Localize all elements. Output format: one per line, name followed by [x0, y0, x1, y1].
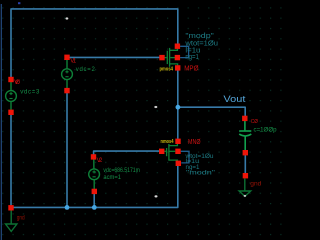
svg-text:gnd: gnd — [17, 214, 25, 221]
pin squares V0 — [8, 77, 13, 82]
white marker gnd apex — [244, 195, 247, 197]
wire V1 bottom to rail — [66, 93, 68, 208]
svg-text:pmos4: pmos4 — [160, 66, 174, 72]
capacitor C0 symbol — [239, 121, 251, 150]
pin squares V2 — [91, 154, 96, 159]
svg-text:nmos4: nmos4 — [161, 139, 174, 145]
svg-text:wtot=1Øu: wtot=1Øu — [184, 40, 218, 47]
wire ground rail and up to MN0 source — [11, 166, 178, 208]
wire V2 top to MN0 gate — [94, 151, 161, 155]
svg-text:MPØ: MPØ — [184, 65, 199, 72]
pin squares V1 — [64, 55, 69, 60]
svg-text:vdc=3: vdc=3 — [20, 89, 40, 95]
svg-text:vdc=2: vdc=2 — [76, 67, 96, 73]
wire Vout to C0 — [178, 107, 245, 116]
pin squares MN0 — [175, 139, 180, 144]
wire MP0 bulk tie — [180, 46, 189, 57]
svg-text:CØ: CØ — [251, 119, 259, 125]
wire C0 bottom to gnd — [244, 155, 246, 173]
svg-text:"modn": "modn" — [186, 171, 215, 177]
svg-text:MNØ: MNØ — [188, 139, 201, 146]
svg-text:vdc=686.5171m: vdc=686.5171m — [103, 168, 139, 174]
svg-text:gnd: gnd — [250, 181, 262, 188]
svg-text:VØ: VØ — [14, 80, 20, 86]
wire V2 bottom to rail — [93, 194, 95, 208]
border speck — [18, 2, 20, 4]
ground left — [6, 210, 17, 231]
vsource V2 — [89, 160, 100, 189]
svg-text:c=1ØØp: c=1ØØp — [254, 128, 278, 134]
wire junction down to MN0 drain — [177, 107, 179, 139]
pin square gnd right — [243, 173, 248, 178]
wire V1 top to MP0 gate — [67, 56, 161, 58]
nmos MN0 symbol — [164, 144, 177, 161]
pmos MP0 symbol — [164, 48, 177, 67]
white marker mid — [154, 106, 157, 108]
wire vdd loop: V0 top to MP0 source — [11, 9, 178, 78]
sheet border left edge — [0, 4, 2, 240]
pin squares C0 — [242, 116, 247, 121]
pin squares MP0 — [175, 44, 180, 49]
pin square gnd left — [8, 205, 13, 210]
svg-text:acm=1: acm=1 — [103, 175, 121, 181]
svg-text:V2: V2 — [97, 158, 103, 164]
svg-text:ng=1: ng=1 — [185, 54, 199, 61]
svg-text:Vout: Vout — [223, 94, 245, 105]
wire MP0 drain to node Vout junction — [177, 70, 179, 107]
junction dot rail V1 — [65, 205, 70, 210]
ground right — [239, 179, 251, 197]
white marker low — [155, 195, 158, 197]
wire MN0 bulk tie — [181, 151, 189, 163]
wire V0 bottom to gnd — [10, 115, 12, 206]
junction dot rail V2 — [92, 205, 97, 210]
svg-text:V1: V1 — [70, 59, 76, 65]
svg-text:"modp": "modp" — [185, 33, 214, 40]
junction dot Vout — [176, 105, 181, 110]
white marker top — [66, 17, 69, 19]
vsource V1 — [62, 60, 73, 88]
vsource V0 — [6, 82, 17, 110]
